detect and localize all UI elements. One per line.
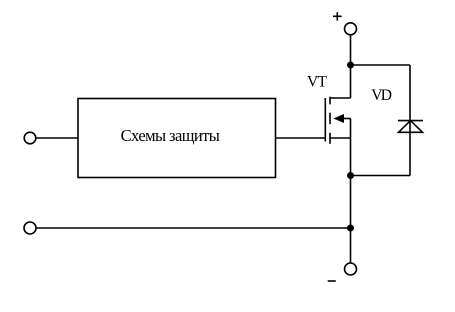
wire: + terminal to drain node bbox=[350, 35, 352, 65]
wire: lower input terminal to negative rail node bbox=[36, 227, 351, 229]
label + (positive terminal) bbox=[333, 15, 342, 17]
node: source node junction bbox=[347, 172, 354, 179]
wire: drain node down to VT drain bbox=[350, 65, 352, 98]
wire: diode branch vertical bbox=[409, 65, 411, 176]
wire: diode branch bottom to source node bbox=[351, 175, 411, 177]
node: drain node junction bbox=[347, 62, 354, 69]
node: negative rail junction bbox=[347, 225, 354, 232]
label - (negative terminal) bbox=[328, 280, 336, 282]
wire: drain node to diode branch (top) bbox=[351, 64, 411, 66]
wire: VT source down to source node bbox=[350, 138, 352, 176]
wire: block output to gate of VT bbox=[276, 137, 326, 139]
svg-text:VD: VD bbox=[371, 87, 392, 104]
wire: negative rail node to - terminal bbox=[350, 228, 352, 263]
terminal: common input (lower left) bbox=[24, 222, 36, 234]
svg-text:Схемы защиты: Схемы защиты bbox=[121, 126, 220, 145]
transistor VT: N-channel MOSFET bbox=[325, 97, 350, 144]
terminal: + supply bbox=[345, 23, 357, 35]
terminal: control input (upper left) bbox=[24, 132, 36, 144]
svg-text:VT: VT bbox=[307, 74, 327, 91]
wire: input terminal to block bbox=[36, 137, 78, 139]
wire: source node down to negative rail node bbox=[350, 176, 352, 229]
block U1: Схемы защиты (protection circuits) bbox=[78, 99, 276, 178]
terminal: - supply bbox=[345, 263, 357, 275]
diode VD (cathode up) bbox=[398, 121, 423, 133]
